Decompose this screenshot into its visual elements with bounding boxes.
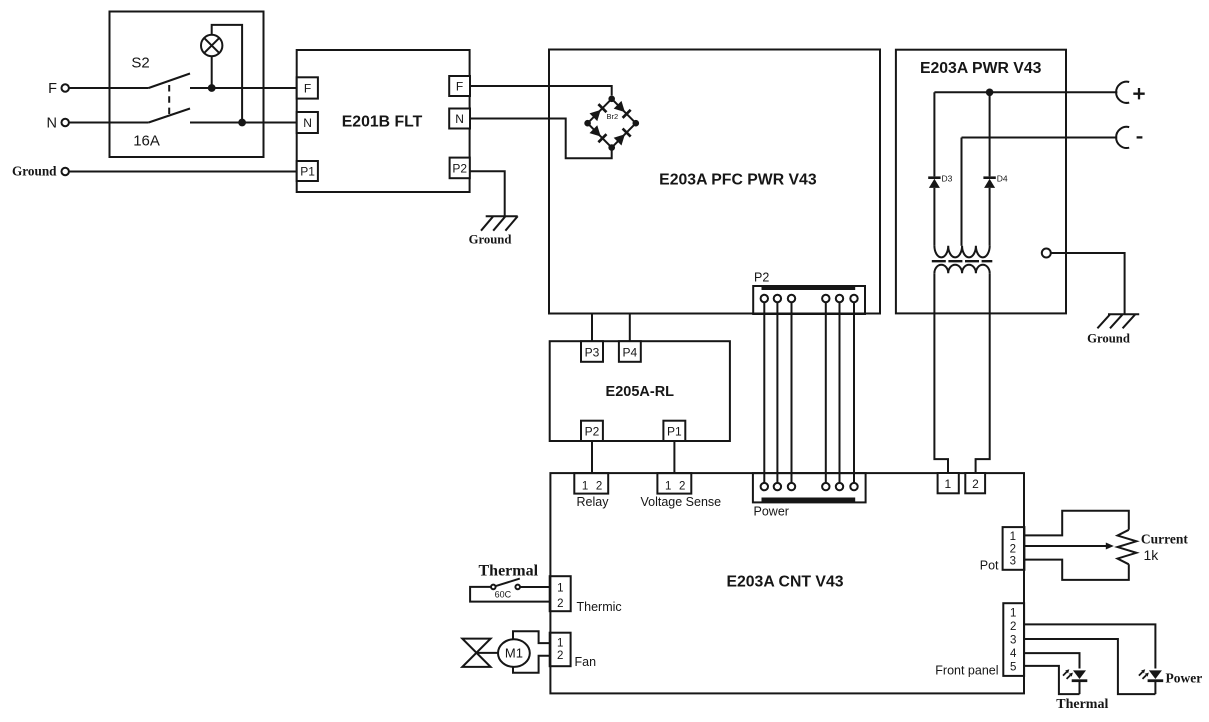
node Ground input terminal xyxy=(61,168,68,175)
connector Power pins xyxy=(761,483,768,490)
wire thermal switch pin1 xyxy=(520,586,550,588)
connector P2 on PFC xyxy=(753,286,865,314)
svg-text:16A: 16A xyxy=(133,132,160,149)
svg-text:S2: S2 xyxy=(131,55,149,72)
diode D3 xyxy=(933,92,935,176)
node bridge left xyxy=(584,120,591,127)
PFC module E203A PFC PWR V43 xyxy=(549,50,880,314)
terminal P2 on E205A-RL xyxy=(581,421,603,441)
terminal F left of E201B xyxy=(297,77,318,98)
svg-text:E201B FLT: E201B FLT xyxy=(342,114,423,131)
svg-text:4: 4 xyxy=(1010,648,1017,660)
node junction on N line xyxy=(238,119,246,127)
svg-text:N: N xyxy=(47,116,57,132)
svg-text:P2: P2 xyxy=(585,425,600,439)
svg-text:2: 2 xyxy=(557,650,563,662)
LED Power xyxy=(1149,670,1162,679)
svg-text:D3: D3 xyxy=(942,174,953,184)
svg-text:P1: P1 xyxy=(667,425,682,439)
svg-text:F: F xyxy=(48,81,57,97)
svg-text:Voltage Sense: Voltage Sense xyxy=(640,495,721,509)
svg-text:1: 1 xyxy=(582,481,588,493)
diode Br2 upper-right xyxy=(614,101,631,118)
svg-text:P4: P4 xyxy=(623,345,638,359)
switch mechanical link (dashed) xyxy=(168,85,170,114)
wire power pin 6 xyxy=(853,299,855,487)
wire F to bridge top xyxy=(470,86,612,95)
wire P1 to Voltage Sense connector xyxy=(673,441,675,473)
wire power pin 1 xyxy=(763,299,765,487)
svg-text:1: 1 xyxy=(665,481,671,493)
svg-text:2: 2 xyxy=(1010,621,1016,633)
connector P2 bar xyxy=(762,286,856,291)
wire N switch contact to E201B xyxy=(190,122,297,124)
svg-text:E203A PFC PWR V43: E203A PFC PWR V43 xyxy=(659,172,817,189)
terminal N right of E201B xyxy=(449,109,470,129)
control module E203A CNT V43 xyxy=(550,473,1024,693)
terminal P4 on E205A-RL xyxy=(619,341,641,362)
terminal minus output arc xyxy=(1116,127,1129,148)
label minus xyxy=(1137,136,1143,138)
svg-text:3: 3 xyxy=(1010,556,1016,568)
transformer T1 core xyxy=(932,260,993,262)
wire P4 to PFC xyxy=(629,314,631,342)
wire front panel pin4 to thermal led xyxy=(1024,653,1079,668)
transformer T1 secondary winding xyxy=(934,265,989,273)
svg-text:D4: D4 xyxy=(997,174,1008,184)
svg-text:Ground: Ground xyxy=(12,164,57,179)
wire fan blade to motor xyxy=(477,652,499,654)
ground chassis symbol under P2 xyxy=(481,216,518,231)
wire Ground input to P1 xyxy=(68,171,296,173)
connector Power bar xyxy=(762,498,856,503)
filter module E201B FLT xyxy=(297,50,470,192)
svg-text:60C: 60C xyxy=(495,589,512,599)
wire fan pin2 to motor xyxy=(513,656,550,673)
connector Relay xyxy=(574,473,608,494)
svg-text:Relay: Relay xyxy=(577,495,610,509)
resistor Current 1k zigzag xyxy=(1118,530,1137,565)
wire thermal switch loop to pin2 xyxy=(470,587,550,602)
terminal F right of E201B xyxy=(449,76,470,96)
wire F input to switch pivot xyxy=(68,87,148,89)
thermal switch 60C contacts xyxy=(515,585,520,590)
svg-text:N: N xyxy=(303,116,312,130)
node bridge top xyxy=(608,96,615,103)
wire lamp top to N junction xyxy=(212,25,242,123)
terminal chassis on PWR xyxy=(1042,249,1051,258)
svg-text:2: 2 xyxy=(557,598,563,610)
terminal 1 on CNT top xyxy=(938,473,959,493)
wire pot pin1 to resistor top xyxy=(1024,511,1128,536)
svg-text:P1: P1 xyxy=(300,164,315,178)
svg-text:F: F xyxy=(304,82,311,96)
ground chassis symbol right xyxy=(1097,314,1139,328)
connector Thermic xyxy=(550,576,571,611)
svg-text:P2: P2 xyxy=(754,271,769,285)
svg-text:1: 1 xyxy=(557,582,563,594)
diode Br2 lower-left xyxy=(589,125,606,142)
svg-text:2: 2 xyxy=(972,477,979,491)
wire N input to switch pivot xyxy=(68,122,148,124)
connector Front panel xyxy=(1003,603,1024,676)
svg-text:Ground: Ground xyxy=(1087,332,1130,346)
svg-text:Ground: Ground xyxy=(469,233,512,247)
svg-text:N: N xyxy=(455,112,464,126)
node junction plus rail xyxy=(986,89,994,97)
lamp xyxy=(201,35,222,56)
terminal P1 left of E201B xyxy=(297,161,318,181)
svg-text:2: 2 xyxy=(679,481,685,493)
svg-text:5: 5 xyxy=(1010,662,1016,674)
svg-text:Thermal: Thermal xyxy=(479,563,539,580)
svg-text:1: 1 xyxy=(1010,531,1016,543)
wire plus rail xyxy=(934,91,1117,93)
svg-text:E203A PWR V43: E203A PWR V43 xyxy=(920,60,1042,77)
relay module E205A-RL xyxy=(550,341,730,441)
terminal P3 on E205A-RL xyxy=(581,341,603,362)
wire chassis terminal to ground xyxy=(1051,253,1125,314)
wire front panel pin3 to power led return xyxy=(1024,639,1155,694)
wire front panel pin5 to thermal led return xyxy=(1024,666,1079,694)
wire minus to transformer center tap xyxy=(961,138,963,246)
svg-text:Front panel: Front panel xyxy=(935,664,998,678)
svg-text:Thermal: Thermal xyxy=(1056,697,1108,712)
node F input terminal xyxy=(61,84,68,91)
diode D4 xyxy=(989,92,991,176)
wire secondary right to terminal 2 xyxy=(976,273,990,473)
svg-text:1: 1 xyxy=(944,477,951,491)
wire power pin 3 xyxy=(791,299,793,487)
bridge rectifier Br2 diamond xyxy=(588,99,636,148)
svg-text:2: 2 xyxy=(1010,544,1016,556)
connector Power on CNT xyxy=(753,473,866,502)
svg-text:F: F xyxy=(456,80,463,94)
node bridge bottom xyxy=(608,144,615,151)
motor M1 xyxy=(498,639,530,667)
connector P2 pins xyxy=(761,295,768,302)
svg-text:Pot: Pot xyxy=(980,559,999,573)
svg-text:1: 1 xyxy=(557,637,563,649)
terminal P2 right of E201B xyxy=(450,158,470,179)
node junction on F line xyxy=(208,84,216,92)
svg-text:3: 3 xyxy=(1010,634,1016,646)
power module E203A PWR V43 xyxy=(896,50,1066,314)
switch S2 pole F blade xyxy=(149,74,190,89)
svg-text:Power: Power xyxy=(754,505,789,519)
wire F switch contact to E201B xyxy=(190,87,297,89)
wire power pin 5 xyxy=(839,299,841,487)
svg-text:Br2: Br2 xyxy=(607,112,619,121)
svg-text:1: 1 xyxy=(1010,607,1016,619)
svg-text:E205A-RL: E205A-RL xyxy=(606,384,675,400)
switch box S2 xyxy=(110,12,264,158)
wire P2 to Relay connector xyxy=(591,441,593,473)
wire P2 to chassis ground xyxy=(470,171,505,216)
wire pot pin3 to resistor bottom xyxy=(1024,560,1128,580)
wire front panel pin2 to power led xyxy=(1024,624,1155,668)
fan blade symbol xyxy=(462,639,490,667)
wire power pin 2 xyxy=(776,299,778,487)
LED Thermal xyxy=(1073,670,1086,679)
svg-text:Power: Power xyxy=(1166,670,1203,685)
label plus xyxy=(1133,88,1144,99)
svg-text:Current: Current xyxy=(1141,532,1188,547)
terminal 2 on CNT top xyxy=(965,473,985,493)
svg-text:M1: M1 xyxy=(505,646,523,661)
connector Fan xyxy=(550,633,571,667)
svg-text:E203A CNT V43: E203A CNT V43 xyxy=(726,574,843,591)
wire secondary left to terminal 1 xyxy=(934,273,948,473)
switch S2 pole N blade xyxy=(149,109,190,123)
svg-text:2: 2 xyxy=(596,481,602,493)
svg-text:1k: 1k xyxy=(1144,547,1160,563)
thermal switch blade xyxy=(495,579,520,587)
svg-text:Fan: Fan xyxy=(575,655,597,669)
node bridge right xyxy=(633,120,640,127)
wire minus rail xyxy=(962,137,1118,139)
wire lamp bottom to F junction xyxy=(211,56,213,88)
terminal N left of E201B xyxy=(297,112,318,133)
wire fan pin1 to motor xyxy=(513,631,550,643)
svg-text:P2: P2 xyxy=(452,161,467,175)
wire power pin 4 xyxy=(825,299,827,487)
connector Pot xyxy=(1003,527,1025,570)
node N input terminal xyxy=(61,119,68,126)
terminal plus output arc xyxy=(1116,82,1129,103)
diode Br2 lower-right xyxy=(614,129,631,146)
wire pot wiper arrow xyxy=(1024,545,1106,547)
svg-text:Thermic: Thermic xyxy=(577,600,622,614)
transformer T1 primary winding xyxy=(934,246,989,258)
svg-text:P3: P3 xyxy=(585,345,600,359)
wire P3 to PFC xyxy=(591,314,593,342)
connector Voltage Sense xyxy=(657,473,691,494)
diode Br2 upper-left xyxy=(589,104,606,121)
wire N to bridge bottom xyxy=(470,119,612,159)
terminal P1 on E205A-RL xyxy=(663,421,685,441)
